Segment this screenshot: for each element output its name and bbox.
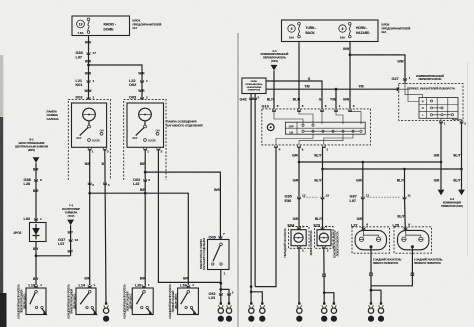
door switch L20: [132, 276, 153, 315]
turn switch internal entry wires: [397, 84, 423, 102]
junction node ground bus: [219, 282, 229, 296]
wire B dome pin3 to ground: [102, 150, 106, 303]
faint right page edge: [467, 62, 469, 255]
junction node Y/W drop: [330, 88, 337, 109]
diode L02: [30, 223, 47, 242]
wire G/R to rear left lamp: [356, 162, 363, 197]
wire BL/Y down to L25: [397, 197, 405, 230]
front turn lamp E04: [288, 224, 310, 253]
dome lamp pin 1: [88, 148, 94, 154]
arrow to cluster left: [438, 190, 445, 196]
trunk lamp O03 body: [127, 103, 164, 147]
scan edge artifact faint upper: [0, 55, 3, 117]
connector G33/L07 pin 17: [76, 51, 97, 59]
wire B/Y from T-4: [68, 225, 74, 256]
wire BL/Y to rear right lamp: [397, 169, 405, 197]
fuse 13 7.5A: [77, 18, 90, 35]
ground F23 left: [321, 302, 327, 322]
trunk lamp pin 1: [143, 148, 149, 154]
wire BL/Y from turn switch pin2: [453, 121, 461, 189]
bus BL/Y horizontal: [321, 168, 463, 171]
junction node rear lamp grounds: [370, 289, 381, 303]
wire E04 to ground: [298, 248, 300, 302]
bus G/R horizontal: [298, 161, 443, 164]
wire G/R down to L27: [357, 197, 363, 230]
connector O03 pin 2: [129, 96, 148, 100]
connector pin 4 on B wire: [103, 182, 110, 186]
arrow to cluster right: [458, 190, 465, 196]
ground left trunk: [218, 296, 224, 322]
side lamp F23 rotated label right: [333, 230, 340, 258]
junction node to trunk switch branch: [144, 171, 147, 174]
C-4 column switch label: [261, 50, 289, 63]
wire relay grounds down: [251, 94, 255, 292]
wire W/R from fuse: [85, 36, 92, 100]
hazard pilot lamp: [267, 124, 274, 131]
door switch L16 rotated label: [168, 284, 178, 319]
wire G/W branch to G27: [350, 55, 405, 84]
scan edge artifact bottom-left blob: [0, 293, 7, 327]
door switch L14: [76, 283, 98, 315]
fuse 8 15A: [339, 23, 351, 40]
wire B trunk pin3 down: [158, 150, 220, 282]
dome lamp K03 dashed enclosure: [68, 99, 110, 180]
wire BL/Y from C-4: [267, 71, 275, 109]
fuse block label: [133, 19, 162, 31]
scan edge artifact left bar: [0, 117, 3, 327]
connector G42 pin 2: [240, 96, 260, 102]
wire BL/R turn fuse to G13: [293, 42, 301, 109]
wire B/R from B-1: [33, 163, 39, 223]
ground right trunk: [226, 296, 232, 322]
ground relay right: [259, 302, 265, 322]
arrow from T-4: [67, 220, 74, 226]
wire B/R dome pin1 down: [85, 150, 91, 193]
connector pin 2 on B/R wire: [88, 182, 95, 186]
turn switch contact table: [419, 98, 462, 121]
rear right turn lamp L25: [371, 223, 432, 286]
arrow from B-1: [33, 157, 40, 163]
wire bus B/R to door switches: [88, 192, 188, 285]
hazard switch internal wires: [274, 110, 361, 145]
wire G/R to front lamp E04: [293, 197, 299, 230]
ground relay left: [248, 302, 254, 322]
wire BL/Y to side lamp F23: [315, 197, 323, 230]
wire link to T-4 branch: [36, 255, 71, 257]
door switch L14 rotated label: [66, 284, 76, 319]
scan noise overlay: [0, 0, 1, 1]
B-1 central lock label: [15, 138, 48, 153]
wire BL/Y pin2 down: [314, 148, 322, 198]
hazard switch contact table: [285, 122, 365, 134]
junction node G/W: [349, 54, 352, 57]
door switch L10 rotated label: [16, 284, 26, 319]
fuse block 1 label: [382, 23, 411, 35]
turn signal switch box: [399, 84, 463, 121]
ground rear right: [378, 302, 384, 322]
ground E04: [296, 302, 302, 322]
trunk switch O09: [208, 232, 230, 283]
trunk lamp pin 3: [157, 148, 163, 154]
ground G401 near L14: [103, 302, 109, 322]
G13 bottom pins 4 9 2: [274, 145, 328, 151]
wire G/R pin9 down: [292, 148, 299, 198]
dome lamp pin 3: [103, 148, 109, 154]
wire G/R from turn switch pin1: [434, 121, 441, 189]
side repeater lamp F23: [314, 224, 334, 253]
connector G38/L28 pin 9: [24, 178, 43, 186]
junction node splice: [87, 64, 90, 67]
page divider line: [237, 33, 239, 327]
junction node diode/T4: [35, 254, 38, 257]
fuse 9 10A: [288, 23, 301, 40]
arrow from C-4: [271, 65, 278, 71]
connector K03 pin 2: [76, 96, 95, 100]
wire F23 to grounds: [323, 248, 334, 302]
door switch L20 rotated label: [123, 284, 133, 319]
connector O61/L23: [209, 290, 234, 300]
wire branch B/R to O09: [145, 172, 220, 239]
wire G relay to G13: [266, 77, 322, 109]
connector G35/E36 pins 12 13: [285, 194, 330, 203]
trunk lamp O03 dashed enclosure: [124, 99, 166, 180]
wire Y/B relay to turn switch: [266, 85, 399, 90]
connector G27 pin 1: [392, 76, 411, 81]
connector O02/L22 pin 3: [133, 178, 150, 186]
combination switch label: [416, 75, 444, 81]
T-4 timer label: [62, 204, 80, 219]
wire B/R to L14: [85, 193, 91, 285]
C-3 cluster label: [441, 198, 463, 208]
wire branch to trunk lamp: [89, 65, 143, 99]
trunk lamp label: [167, 120, 203, 128]
rear right lamp caption: [414, 258, 443, 265]
rear left lamp caption: [373, 258, 402, 265]
turn signal flasher relay: [242, 78, 266, 94]
door switch L10: [26, 283, 48, 315]
door switch L16: [178, 276, 199, 315]
ground F23 right: [331, 302, 337, 322]
fuse block box №1: [282, 20, 379, 42]
wire B pin4 to ground bus: [255, 148, 276, 287]
wire B/Y from diode: [33, 242, 39, 286]
connector G37/L07 pin 16: [58, 238, 78, 246]
connector L22/O02 pin 1: [129, 72, 148, 94]
dome lamp label: [47, 109, 59, 121]
ground rear left: [368, 302, 374, 322]
connector L02 pin 1: [24, 217, 43, 221]
rear left turn lamp L27: [351, 223, 390, 291]
connector G37/L07 pins 12 11: [350, 194, 412, 203]
dome lamp K03 body: [72, 103, 107, 147]
fuse block box №7: [72, 16, 130, 36]
turn switch pins 1 2: [439, 121, 466, 126]
G13 top pins 5 6 8 1 3: [272, 104, 355, 111]
wire G/W hazard fuse: [343, 42, 350, 109]
connector L21/K01 pin 1: [76, 72, 95, 94]
hazard switch assembly G13 dashed box: [262, 104, 371, 144]
connector squares on rear lamp wires: [370, 273, 414, 276]
trunk switch O09 rotated label: [199, 238, 206, 270]
wire B/R trunk pin1 down: [140, 150, 146, 285]
junction nodes relay ground: [250, 285, 262, 302]
